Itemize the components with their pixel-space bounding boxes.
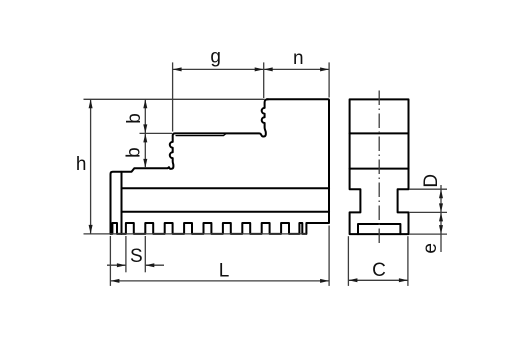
arrowhead e up [439,212,443,221]
arrowhead L left [110,279,119,283]
arrowhead n left [264,67,273,71]
S right extension line [144,236,146,272]
arrowhead D down [439,203,443,212]
jaw left view: guide notch upper edge line [122,187,330,189]
arrowhead S left (outside) [117,263,126,267]
dimension line C [348,279,408,281]
dimension line L [110,280,329,282]
arrowhead b1 down [143,124,147,133]
C right extension line [407,236,409,286]
arrowhead D up [439,189,443,198]
jaw left view: serrated steps, shelf and left flange edge [111,99,269,234]
arrowhead h down [89,225,93,234]
svg-text:C: C [372,260,386,281]
svg-text:n: n [293,48,304,69]
dimension line D [440,185,442,212]
svg-text:e: e [420,243,441,254]
arrowhead h up [89,99,93,108]
dimension line e with tail [440,212,442,252]
svg-text:D: D [421,174,442,188]
L left extension line [109,236,111,286]
dimension line n [264,68,329,70]
svg-text:g: g [210,46,221,67]
h top extension line [84,98,265,100]
arrowhead S right (outside) [145,263,154,267]
svg-text:b: b [124,113,145,124]
dimension line h [90,99,92,234]
jaw right view: bottom key groove [358,224,400,234]
jaw right view: step divider line 1 [350,132,409,134]
arrowhead C right [399,278,408,282]
svg-text:b: b [124,147,145,158]
arrowhead n right [320,67,329,71]
arrowhead b1 up [143,99,147,108]
g left extension line [172,62,174,131]
bottom baseline extension line [84,233,307,235]
S dimension tails [107,264,164,266]
jaw left view: guide notch lower edge line [122,211,330,213]
arrowhead g left [173,67,182,71]
jaw left view: top block, right edge and bottom rack teeth outline [110,99,329,234]
svg-text:S: S [130,246,143,267]
n right extension line [328,62,330,97]
e bottom extension line [409,233,447,235]
centerline of right view [378,91,380,244]
L right extension line [328,226,330,286]
D upper extension line [409,188,447,190]
C left extension line [347,236,349,286]
arrowhead b2 down [143,159,147,168]
jaw left view: step relief thin line [176,134,226,136]
D lower extension line [409,211,447,213]
dimension line g [173,68,264,70]
arrowhead b2 up [143,133,147,142]
jaw right view: outer cross-section outline [350,99,409,234]
S left extension line [125,236,127,272]
arrowhead g right [255,67,264,71]
g right extension line [263,62,265,98]
jaw right view: step divider line 2 [350,168,409,170]
b bottom extension line [140,132,173,134]
arrowhead L right [320,279,329,283]
dimension line b (upper and lower) [144,99,146,168]
jaw left view: flange inner edge [121,172,123,234]
svg-text:L: L [219,260,230,281]
arrowhead C left [348,278,357,282]
svg-text:h: h [76,154,87,175]
arrowhead e down [439,225,443,234]
